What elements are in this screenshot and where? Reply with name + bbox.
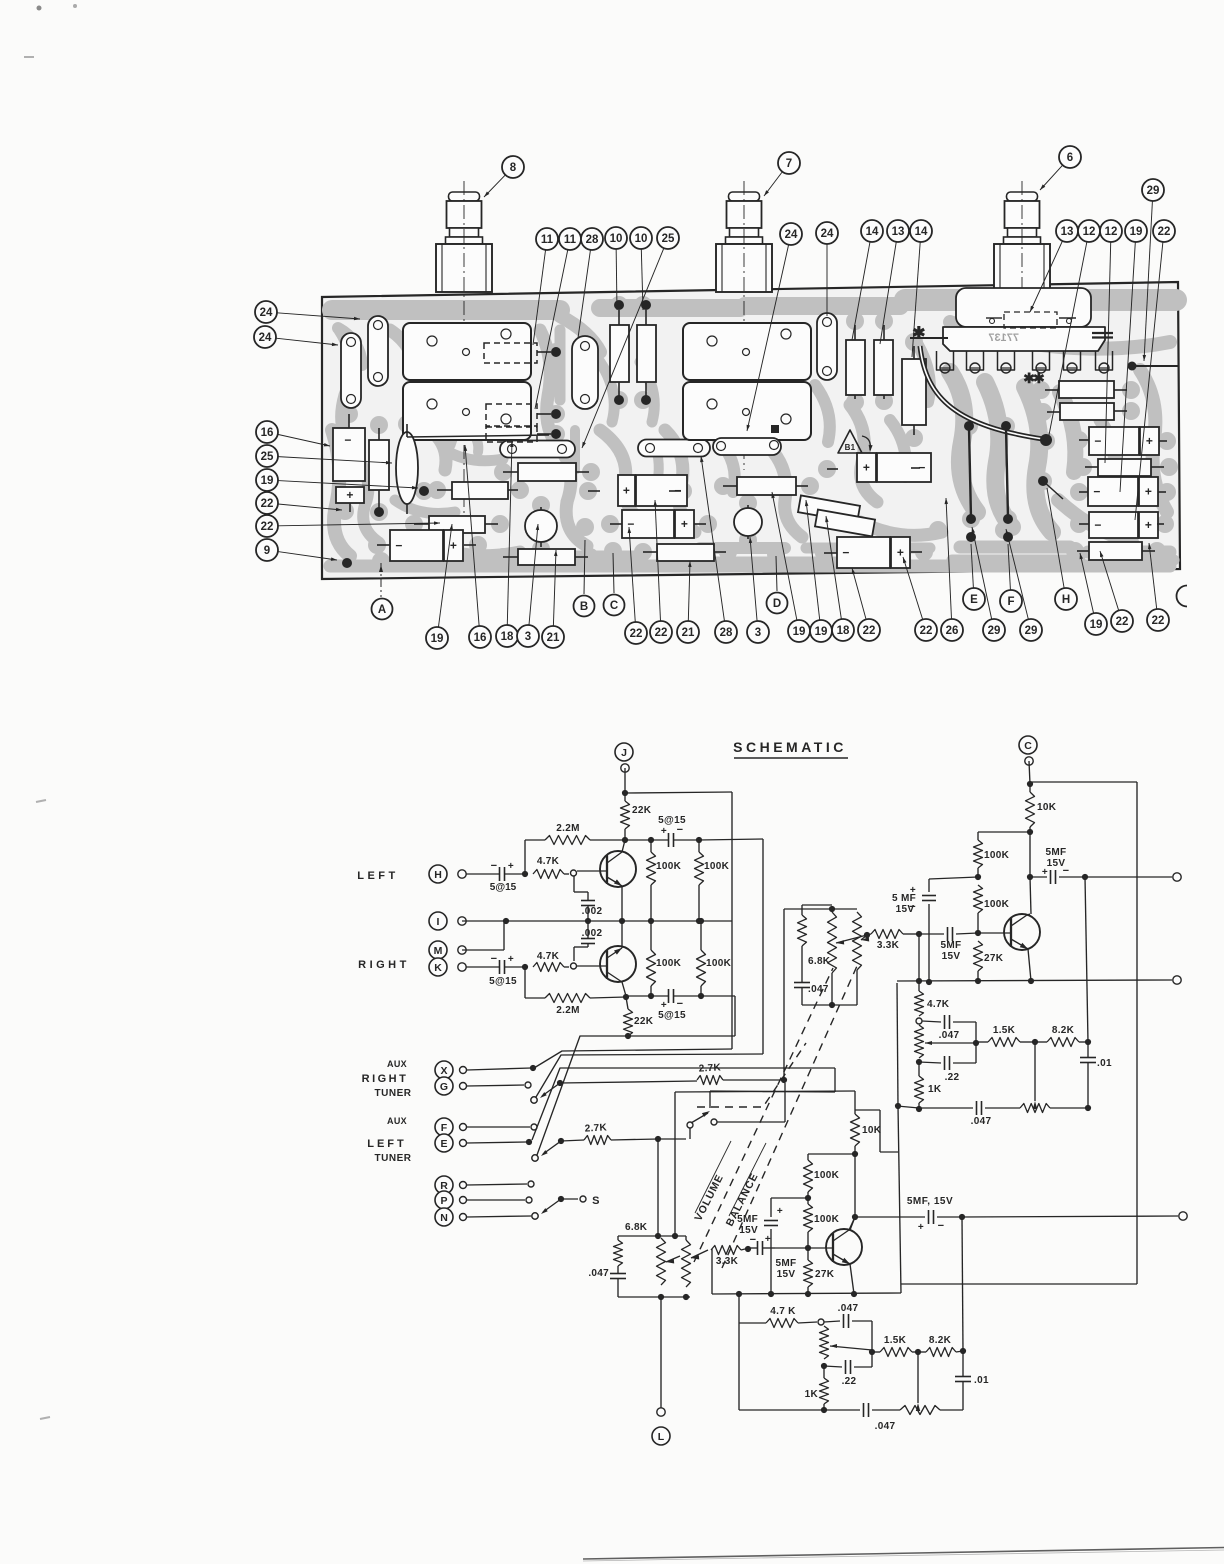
- svg-text:RIGHT: RIGHT: [362, 1073, 409, 1085]
- callout 19: [1120, 242, 1135, 492]
- svg-text:100K: 100K: [814, 1170, 840, 1181]
- electrolytic capacitor: [1088, 477, 1138, 506]
- power transistor heatsink: [956, 288, 1091, 327]
- transistor (round): [734, 508, 762, 536]
- svg-text:+: +: [918, 1222, 924, 1233]
- callout 11: [535, 250, 568, 409]
- P wire: [467, 1199, 525, 1201]
- svg-text:H: H: [434, 869, 442, 881]
- svg-text:5@15: 5@15: [490, 882, 517, 893]
- wire to L: [660, 1297, 662, 1408]
- capacitor (axial ellipse): [396, 432, 418, 504]
- balance pot (upper): [853, 912, 862, 970]
- svg-text:−: −: [1093, 485, 1100, 499]
- callout B: [584, 540, 585, 594]
- svg-text:+: +: [1145, 518, 1152, 532]
- E wire: [467, 1142, 526, 1143]
- callout 26: [946, 498, 952, 619]
- svg-text:4.7 K: 4.7 K: [770, 1306, 796, 1317]
- svg-text:27K: 27K: [984, 953, 1004, 964]
- callout 22: [1100, 551, 1119, 611]
- svg-text:C: C: [1024, 740, 1032, 752]
- svg-text:22: 22: [261, 521, 274, 533]
- G wire: [467, 1085, 524, 1086]
- right column components: [1059, 381, 1114, 398]
- feedback box lower: [738, 1294, 740, 1410]
- terminal H: [429, 865, 447, 883]
- volume balance dashed gang lines: [694, 968, 833, 1262]
- terminal N: [435, 1208, 453, 1226]
- electrolytic capacitor: [618, 475, 635, 506]
- svg-text:15V: 15V: [777, 1269, 796, 1280]
- resistor 100K #1: [650, 840, 652, 852]
- resistor: [637, 325, 656, 382]
- output cap 5MF upper: [1030, 876, 1047, 878]
- svg-text:100K: 100K: [656, 958, 682, 969]
- resistor 3.3K lower: [711, 1246, 741, 1255]
- wire to 2.7K left: [561, 1140, 584, 1141]
- callout 19: [1080, 553, 1094, 613]
- svg-text:1K: 1K: [928, 1084, 942, 1095]
- svg-text:5@15: 5@15: [658, 1010, 686, 1021]
- warning triangle B1: [838, 430, 862, 453]
- svg-text:28: 28: [586, 234, 599, 246]
- svg-text:10K: 10K: [862, 1125, 882, 1136]
- wire J: [624, 768, 626, 793]
- svg-text:22: 22: [1152, 615, 1165, 627]
- svg-text:.01: .01: [974, 1375, 989, 1386]
- svg-text:25: 25: [261, 451, 274, 463]
- svg-text:24: 24: [259, 332, 272, 344]
- bottom bias rail: [626, 995, 651, 997]
- callout D: [776, 556, 777, 591]
- svg-text:6: 6: [1067, 152, 1073, 164]
- svg-text:22K: 22K: [632, 805, 652, 816]
- svg-text:7: 7: [786, 158, 792, 170]
- svg-text:19: 19: [1130, 226, 1143, 238]
- electrolytic capacitor: [1089, 512, 1138, 538]
- svg-text:11: 11: [541, 234, 554, 246]
- callout 18: [507, 441, 512, 625]
- wire C: [1029, 761, 1030, 784]
- resistor: [452, 482, 508, 499]
- F wire: [467, 1126, 530, 1128]
- terminal K: [429, 958, 447, 976]
- svg-text:1.5K: 1.5K: [884, 1335, 907, 1346]
- svg-text:19: 19: [431, 633, 444, 645]
- svg-text:22: 22: [261, 498, 274, 510]
- svg-text:F: F: [441, 1122, 448, 1134]
- right side: [962, 1217, 963, 1351]
- resistor: [902, 359, 926, 425]
- pot centerlines: [463, 181, 465, 520]
- svg-text:X: X: [440, 1065, 447, 1077]
- callout 3: [529, 524, 538, 625]
- resistor: [369, 440, 389, 490]
- terminal R: [435, 1176, 453, 1194]
- svg-text:4.7K: 4.7K: [927, 999, 950, 1010]
- callout 28: [578, 250, 590, 338]
- callout 19: [438, 524, 452, 627]
- J rail: [625, 792, 732, 793]
- base chain 4.7K: [918, 934, 920, 981]
- callout 22: [903, 557, 923, 620]
- svg-text:2.7K: 2.7K: [584, 1122, 607, 1134]
- resistor 4.7K lower: [533, 963, 564, 972]
- svg-text:+: +: [661, 826, 667, 837]
- svg-text:−: −: [344, 433, 351, 447]
- electrolytic capacitor (vertical): [333, 428, 365, 481]
- resistor 100K q4b: [804, 1204, 813, 1232]
- svg-text:+: +: [450, 539, 457, 553]
- svg-text:29: 29: [1147, 185, 1160, 197]
- svg-text:F: F: [1007, 596, 1014, 608]
- svg-text:A: A: [378, 604, 386, 616]
- svg-text:22: 22: [920, 625, 933, 637]
- callout 8: [484, 175, 505, 197]
- svg-text:100K: 100K: [814, 1214, 840, 1225]
- electrolytic capacitor: [857, 453, 876, 482]
- callout 22: [278, 523, 440, 526]
- callout 14: [852, 242, 870, 340]
- svg-text:R: R: [440, 1180, 448, 1192]
- trimmer dashed outline: [484, 343, 537, 363]
- .047 loop: [922, 1021, 941, 1022]
- output cap 5MF lower: [855, 1216, 925, 1218]
- resistor 10K upper: [1029, 784, 1031, 792]
- mounting slot: [817, 313, 837, 380]
- terminal M: [429, 941, 447, 959]
- resistor 22K upper: [624, 793, 626, 801]
- svg-text:10: 10: [610, 233, 623, 245]
- transistor Q1: [600, 851, 636, 887]
- svg-text:24: 24: [821, 228, 834, 240]
- potentiometer shaft at x=1022: [1007, 192, 1038, 201]
- callout 22: [852, 568, 866, 619]
- resistor 2.2M lower: [524, 967, 526, 998]
- box left side: [897, 983, 898, 1106]
- potentiometer shaft at x=744: [729, 192, 760, 201]
- mounting slot small: [713, 438, 781, 455]
- PCB board outline: [322, 282, 1180, 579]
- svg-text:.01: .01: [1097, 1058, 1112, 1069]
- svg-text:100K: 100K: [704, 861, 730, 872]
- callout 16: [465, 445, 479, 626]
- resistor 2.7K left tuner: [584, 1136, 611, 1145]
- R wire: [467, 1184, 527, 1185]
- heatsink pins: [937, 351, 954, 370]
- svg-text:H: H: [1062, 594, 1070, 606]
- terminal X: [435, 1061, 453, 1079]
- callout 22: [629, 527, 635, 622]
- balance wiper to 3.3K: [691, 1250, 708, 1258]
- svg-text:100K: 100K: [656, 861, 682, 872]
- electrolytic capacitor: [390, 530, 443, 561]
- callout 24: [747, 245, 789, 431]
- resistor: [610, 325, 629, 382]
- svg-text:1K: 1K: [805, 1389, 819, 1400]
- callout 21: [688, 561, 690, 621]
- svg-text:26: 26: [946, 625, 959, 637]
- svg-text:19: 19: [793, 626, 806, 638]
- electrolytic capacitor: [1089, 427, 1139, 455]
- transistor Q2: [600, 946, 636, 982]
- svg-text:6.8K: 6.8K: [625, 1222, 648, 1233]
- feed to lower stage: [834, 1068, 836, 1092]
- mounting slot: [638, 440, 710, 457]
- svg-text:1.5K: 1.5K: [993, 1025, 1016, 1036]
- svg-text:2.2M: 2.2M: [556, 823, 579, 834]
- mounting slot: [500, 441, 575, 458]
- svg-text:12: 12: [1105, 226, 1118, 238]
- switch pivot: [531, 1097, 537, 1103]
- jumper wire: [969, 428, 971, 518]
- resistor 100K #2: [698, 840, 700, 852]
- callout 19: [806, 500, 820, 620]
- switch blade X: [557, 1080, 563, 1086]
- wire E to volume pot: [657, 1139, 659, 1236]
- resistor 22K lower: [626, 997, 628, 1009]
- rail return 3: [532, 1068, 835, 1140]
- electrolytic capacitor: [622, 510, 674, 538]
- svg-text:.047: .047: [838, 1303, 859, 1314]
- callout 3: [750, 537, 757, 621]
- resistor: [518, 463, 576, 481]
- svg-text:3.3K: 3.3K: [877, 940, 900, 951]
- callout 25: [582, 248, 664, 448]
- .01 lower: [962, 1351, 964, 1377]
- svg-text:2.2M: 2.2M: [556, 1005, 579, 1016]
- resistor: [429, 516, 485, 533]
- svg-text:−: −: [842, 546, 849, 560]
- svg-text:100K: 100K: [984, 850, 1010, 861]
- copper trace pattern (gray): [330, 296, 1178, 570]
- svg-text:22: 22: [655, 627, 668, 639]
- .22 loop: [916, 1059, 922, 1065]
- .01 cap: [1087, 1042, 1089, 1058]
- svg-text:19: 19: [815, 626, 828, 638]
- pot box bottom: [618, 1296, 690, 1298]
- svg-text:9: 9: [264, 545, 270, 557]
- trimmer dashed outline: [486, 404, 537, 426]
- svg-text:M: M: [434, 945, 443, 957]
- bias rail lower: [808, 1153, 855, 1155]
- riser to balance pots: [783, 909, 785, 1080]
- shunt cap 5MF: [929, 877, 978, 879]
- svg-text:−: −: [677, 998, 684, 1010]
- callout H: [1047, 488, 1064, 588]
- resistor: [874, 340, 893, 395]
- resistor 1K lower: [823, 1366, 825, 1378]
- svg-text:5MF: 5MF: [1046, 847, 1067, 858]
- callout 6: [1040, 165, 1063, 190]
- resistor 2.7K right tuner: [697, 1076, 723, 1085]
- svg-text:77137: 77137: [988, 332, 1019, 344]
- callout E: [971, 544, 973, 588]
- svg-text:5@15: 5@15: [489, 976, 517, 987]
- svg-text:+: +: [681, 517, 688, 531]
- svg-text:TUNER: TUNER: [375, 1088, 412, 1099]
- svg-text:15V: 15V: [739, 1225, 758, 1236]
- jumper wire: [1006, 428, 1008, 518]
- pin header line to edge: [1128, 362, 1137, 371]
- wire to 10K lower: [709, 1091, 711, 1108]
- mounting slot: [572, 336, 598, 409]
- svg-text:−: −: [1094, 434, 1101, 448]
- collector line: [854, 1154, 856, 1217]
- pot body at x=683: [683, 323, 811, 380]
- callout 13: [880, 242, 896, 344]
- svg-text:29: 29: [988, 625, 1001, 637]
- callout 12: [1105, 242, 1111, 463]
- svg-text:8.2K: 8.2K: [929, 1335, 952, 1346]
- svg-text:P: P: [440, 1195, 447, 1207]
- svg-text:−: −: [938, 1220, 945, 1232]
- output line lower: [962, 1216, 1178, 1217]
- pot in chain: [915, 1025, 924, 1058]
- svg-text:LEFT: LEFT: [367, 1138, 407, 1150]
- callout 19: [772, 492, 797, 620]
- svg-text:13: 13: [892, 226, 905, 238]
- svg-text:21: 21: [547, 632, 560, 644]
- svg-text:.047: .047: [808, 984, 829, 995]
- svg-text:25: 25: [662, 233, 675, 245]
- svg-text:.047: .047: [971, 1116, 992, 1127]
- resistor 1K: [918, 1062, 920, 1076]
- svg-text:100K: 100K: [984, 899, 1010, 910]
- series cap 5MF lower: [748, 1247, 758, 1249]
- resistor 3.3K upper: [871, 930, 903, 939]
- svg-text:16: 16: [474, 632, 487, 644]
- callout 14: [912, 242, 920, 357]
- svg-text:N: N: [440, 1212, 448, 1224]
- svg-text:+: +: [1146, 434, 1153, 448]
- switch pivot E: [532, 1155, 538, 1161]
- shunt 5MF lower: [771, 1197, 808, 1199]
- terminal E: [435, 1134, 453, 1152]
- svg-text:J: J: [621, 747, 627, 759]
- 6.8K box upper: [802, 904, 832, 906]
- svg-text:K: K: [434, 962, 442, 974]
- svg-text:28: 28: [720, 627, 733, 639]
- cap .002 upper: [573, 876, 575, 892]
- svg-text:3.3K: 3.3K: [716, 1256, 739, 1267]
- callout 29: [1144, 201, 1152, 361]
- terminal P: [435, 1191, 453, 1209]
- svg-text:+: +: [508, 861, 514, 872]
- resistor 2.2M upper: [524, 840, 526, 874]
- svg-text:21: 21: [682, 627, 695, 639]
- svg-text:+: +: [777, 1206, 783, 1217]
- cap .002 lower: [573, 947, 575, 961]
- svg-text:15V: 15V: [942, 951, 961, 962]
- svg-text:22: 22: [630, 628, 643, 640]
- pot lower chain: [820, 1326, 829, 1359]
- svg-text:3: 3: [755, 627, 761, 639]
- callout 22: [1135, 242, 1163, 520]
- svg-text:6.8K: 6.8K: [808, 956, 831, 967]
- svg-text:19: 19: [261, 475, 274, 487]
- resistor (tilted): [798, 495, 860, 522]
- 10K lower: [854, 1091, 856, 1110]
- svg-text:+: +: [623, 484, 630, 498]
- callout 22: [278, 504, 342, 510]
- svg-text:+: +: [1145, 485, 1152, 499]
- svg-text:10K: 10K: [1037, 802, 1057, 813]
- terminal C: [1019, 736, 1037, 754]
- svg-text:12: 12: [1083, 226, 1096, 238]
- emitter rail lower: [712, 1293, 901, 1294]
- svg-text:5MF: 5MF: [737, 1214, 758, 1225]
- resistor 100K q4a: [807, 1154, 809, 1160]
- rail return 2: [536, 1054, 763, 1097]
- svg-text:.22: .22: [945, 1072, 960, 1083]
- svg-text:.047: .047: [875, 1421, 896, 1432]
- rail return 1: [534, 1049, 732, 1068]
- transistor Q4: [826, 1229, 862, 1265]
- wire K input: [466, 966, 500, 968]
- left margin punch marks: [24, 56, 34, 58]
- top bias rail: [625, 839, 651, 841]
- svg-text:2.7K: 2.7K: [698, 1062, 721, 1074]
- balance pot (lower): [685, 1236, 687, 1240]
- M wire: [462, 949, 504, 951]
- svg-text:.002: .002: [582, 928, 603, 939]
- 22K bottom rail: [628, 1035, 735, 1037]
- electrolytic capacitor: [837, 537, 890, 568]
- switch blade S: [558, 1196, 564, 1202]
- trimmer dashed outline: [486, 427, 537, 442]
- svg-text:D: D: [773, 598, 781, 610]
- heatsink dashed insert: [1004, 312, 1057, 328]
- svg-text:B1: B1: [845, 443, 856, 452]
- svg-text:−: −: [1063, 865, 1070, 877]
- pot on rail: [1020, 1104, 1050, 1113]
- svg-text:22K: 22K: [634, 1016, 654, 1027]
- volume pot (upper): [828, 912, 837, 973]
- svg-text:✱✱: ✱✱: [1023, 370, 1045, 386]
- terminal J: [615, 743, 633, 761]
- mounting slot: [341, 333, 361, 408]
- svg-text:+: +: [346, 488, 353, 502]
- svg-text:5MF: 5MF: [941, 940, 962, 951]
- base line: [775, 1247, 808, 1249]
- svg-text:27K: 27K: [815, 1269, 835, 1280]
- svg-text:18: 18: [501, 631, 514, 643]
- svg-text:.047: .047: [588, 1268, 609, 1279]
- balance pot feed: [674, 1092, 676, 1236]
- svg-text:11: 11: [564, 234, 577, 246]
- callout G (cut at edge): [1177, 586, 1188, 607]
- svg-text:SCHEMATIC: SCHEMATIC: [733, 739, 847, 755]
- C rail: [1030, 781, 1137, 783]
- resistor 100K #3: [650, 986, 652, 996]
- svg-text:24: 24: [260, 307, 273, 319]
- bottom rail lower: [739, 1409, 860, 1411]
- svg-text:8.2K: 8.2K: [1052, 1025, 1075, 1036]
- heatsink side bars: [1092, 332, 1113, 334]
- svg-text:14: 14: [915, 226, 928, 238]
- .22 loop lower: [821, 1363, 827, 1369]
- svg-text:−: −: [627, 517, 634, 531]
- bottom rail with .047: [897, 1106, 919, 1108]
- svg-text:16: 16: [261, 427, 274, 439]
- lower output rail: [897, 980, 1172, 981]
- svg-text:29: 29: [1025, 625, 1038, 637]
- svg-text:100K: 100K: [706, 958, 732, 969]
- 1.5K 8.2K chain: [976, 1041, 988, 1043]
- callout A: [380, 563, 382, 597]
